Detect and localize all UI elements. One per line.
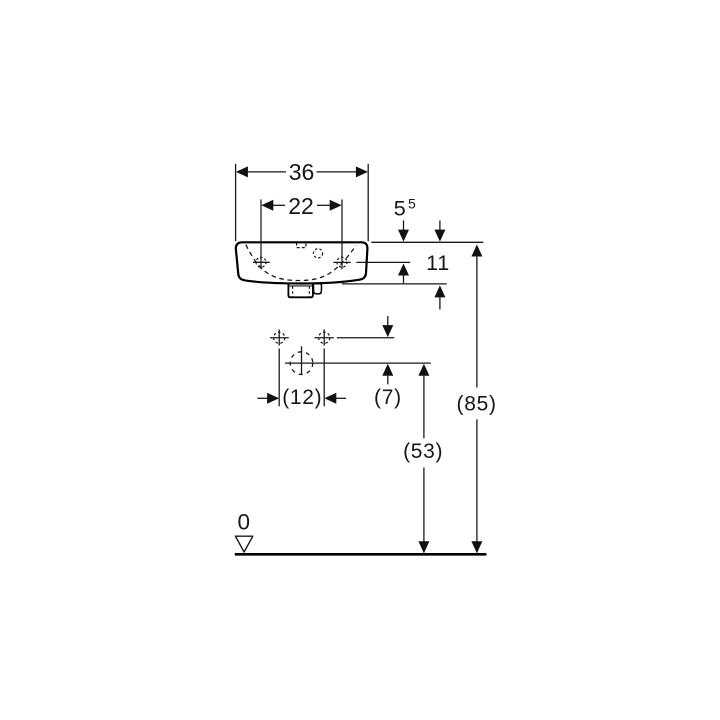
svg-text:0: 0 bbox=[237, 509, 250, 534]
svg-text:36: 36 bbox=[289, 159, 315, 185]
svg-text:5: 5 bbox=[408, 195, 416, 211]
svg-text:(53): (53) bbox=[403, 440, 443, 463]
svg-text:(12): (12) bbox=[282, 386, 322, 409]
svg-text:11: 11 bbox=[426, 251, 450, 275]
svg-text:5: 5 bbox=[394, 197, 406, 221]
svg-text:22: 22 bbox=[288, 193, 314, 219]
svg-text:(7): (7) bbox=[374, 386, 402, 409]
svg-text:(85): (85) bbox=[457, 393, 497, 416]
